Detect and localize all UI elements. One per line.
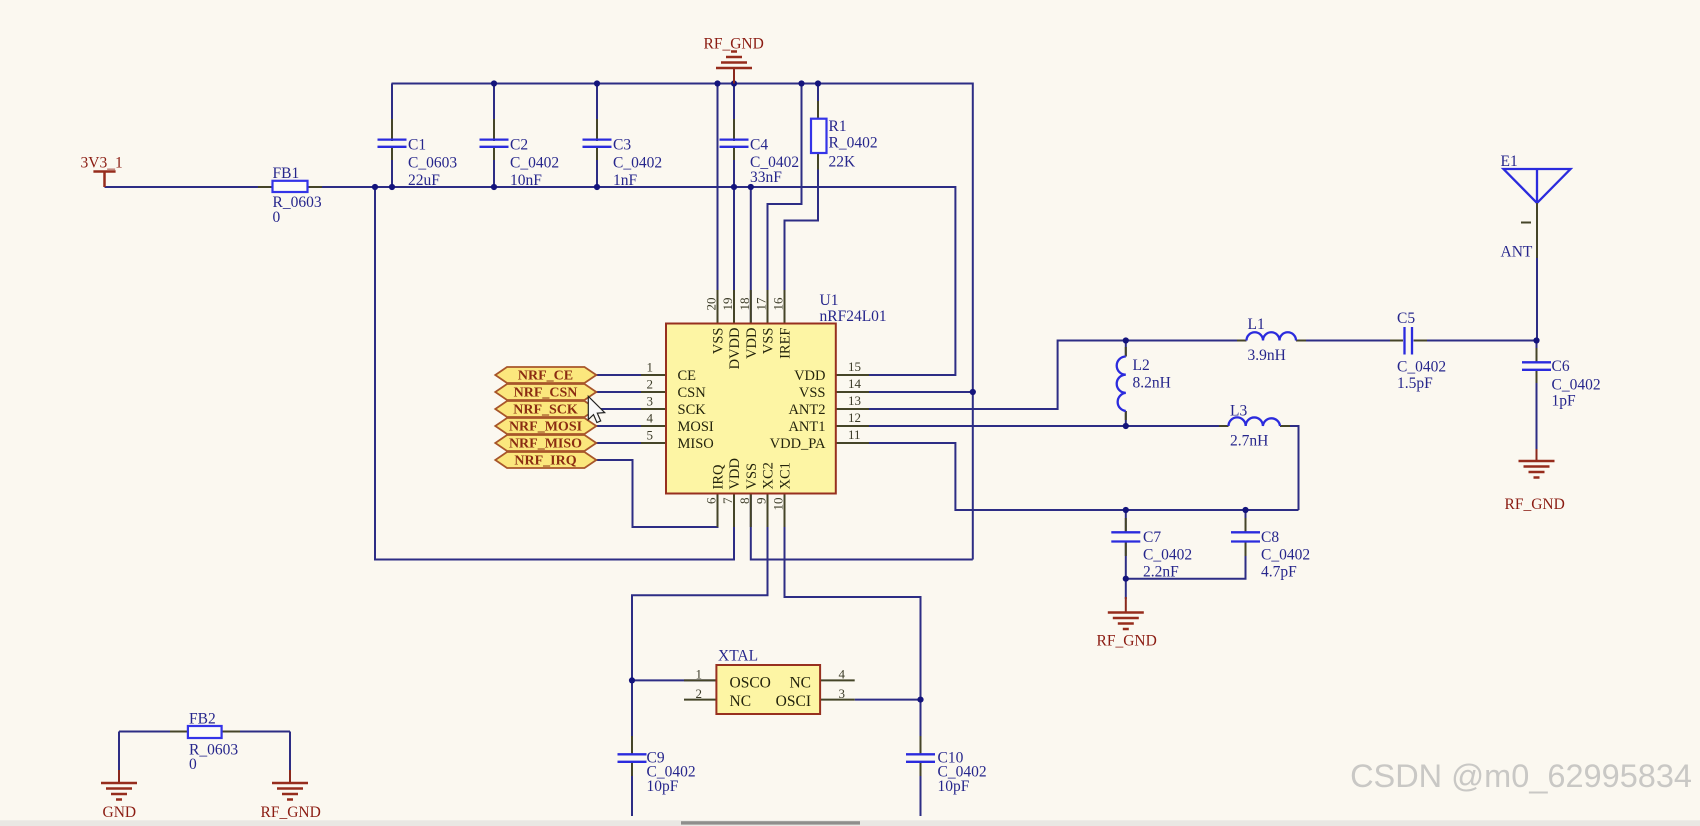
ferrite bead FB1 (258, 165, 322, 226)
svg-text:3: 3 (839, 686, 846, 701)
svg-text:XC1: XC1 (778, 462, 794, 489)
net label NRF_CE (495, 367, 596, 384)
svg-text:NRF_SCK: NRF_SCK (513, 403, 578, 418)
junction dots top bus (491, 80, 821, 86)
svg-text:CSDN @m0_62995834: CSDN @m0_62995834 (1350, 758, 1692, 794)
wire FB2 left to GND (119, 732, 188, 773)
capacitor C10 (906, 736, 987, 795)
capacitor C6 (1522, 348, 1601, 410)
wire L2 leads (1125, 341, 1127, 427)
wire 3V3 bus and pin15 VDD (105, 187, 956, 375)
wire pin17 VSS jog (768, 84, 802, 324)
wire C8 column and bottom link (1126, 510, 1246, 579)
junction dot XTAL pin3 node (917, 697, 923, 703)
svg-text:2.2nF: 2.2nF (1143, 564, 1179, 581)
svg-text:5: 5 (647, 428, 654, 443)
svg-text:C7: C7 (1143, 529, 1161, 546)
IC right pin names (770, 368, 826, 452)
wire pin20 VSS column (717, 84, 719, 324)
capacitor C9 (618, 736, 696, 795)
svg-text:2: 2 (696, 686, 703, 701)
wire pin9 XC2 to XTAL (632, 494, 768, 681)
ground RF_GND bottom-left (261, 770, 321, 821)
capacitor C7 (1111, 518, 1192, 581)
capacitor C8 (1231, 518, 1310, 581)
svg-text:C_0402: C_0402 (1143, 547, 1192, 564)
IC bottom pin numbers (704, 497, 786, 511)
svg-text:ANT1: ANT1 (788, 419, 825, 435)
watermark CSDN (1350, 758, 1692, 794)
svg-text:VSS: VSS (799, 385, 826, 401)
svg-text:NRF_CE: NRF_CE (518, 369, 573, 384)
ground RF_GND below C7 (1097, 597, 1157, 650)
svg-text:6: 6 (704, 497, 719, 504)
svg-text:10: 10 (771, 498, 786, 511)
svg-text:4.7pF: 4.7pF (1261, 564, 1297, 581)
svg-text:1: 1 (647, 360, 654, 375)
power flag 3V3_1 (81, 155, 123, 188)
svg-text:IREF: IREF (778, 328, 794, 359)
svg-text:C_0402: C_0402 (1397, 359, 1446, 376)
svg-text:OSCI: OSCI (776, 693, 811, 710)
svg-text:3V3_1: 3V3_1 (81, 155, 123, 172)
IC top pin names (711, 328, 794, 370)
net label NRF_SCK (495, 401, 596, 418)
wire NRF_CSN to pin2 (596, 391, 666, 393)
svg-text:C6: C6 (1552, 358, 1570, 375)
svg-text:XC2: XC2 (761, 462, 777, 489)
wire pin18 VDD column (750, 187, 752, 324)
svg-text:GND: GND (103, 804, 137, 821)
svg-text:16: 16 (771, 297, 786, 311)
svg-text:RF_GND: RF_GND (704, 36, 764, 53)
svg-text:3.9nH: 3.9nH (1248, 347, 1286, 364)
svg-text:L2: L2 (1133, 357, 1150, 374)
ferrite bead FB2 (170, 711, 240, 774)
svg-text:1.5pF: 1.5pF (1397, 375, 1433, 392)
wire pin14 VSS (836, 391, 973, 393)
svg-text:20: 20 (704, 298, 719, 311)
svg-text:RF_GND: RF_GND (1505, 496, 1565, 513)
svg-text:2: 2 (647, 377, 654, 392)
svg-text:22K: 22K (829, 154, 857, 171)
svg-text:NC: NC (730, 693, 752, 710)
resistor R1 (811, 101, 878, 171)
svg-text:22uF: 22uF (408, 172, 440, 189)
svg-text:ANT: ANT (1501, 244, 1533, 261)
bottom bar (0, 820, 1700, 826)
svg-text:4: 4 (647, 411, 654, 426)
net label NRF_MISO (495, 435, 596, 452)
svg-text:3: 3 (647, 394, 654, 409)
svg-text:NRF_MISO: NRF_MISO (509, 437, 582, 452)
svg-text:ANT2: ANT2 (788, 402, 825, 418)
IC right pin numbers (848, 359, 862, 442)
junction dots 3V3 bus (372, 184, 754, 190)
wire R1/IREF net (785, 84, 819, 324)
wire C1 column (391, 84, 393, 188)
wire NRF_MOSI to pin4 (596, 425, 666, 427)
svg-text:VDD: VDD (727, 458, 743, 489)
svg-text:U1: U1 (820, 292, 839, 309)
net label NRF_MOSI (495, 418, 596, 435)
wire pin8 VSS to vertical (751, 494, 973, 560)
svg-text:MOSI: MOSI (678, 419, 714, 435)
svg-text:C_0402: C_0402 (1552, 377, 1601, 394)
svg-text:L3: L3 (1230, 403, 1247, 420)
antenna E1 (1501, 153, 1571, 261)
svg-text:10pF: 10pF (938, 778, 970, 795)
svg-text:MISO: MISO (678, 436, 714, 452)
svg-text:33nF: 33nF (750, 169, 782, 186)
junction dot XTAL pin1 node (629, 677, 635, 683)
svg-text:RF_GND: RF_GND (1097, 633, 1157, 650)
junction dot C7 bottom (1123, 576, 1129, 582)
net label NRF_IRQ (495, 452, 596, 469)
svg-text:OSCO: OSCO (730, 675, 771, 692)
svg-text:NC: NC (789, 675, 811, 692)
IC U1 nRF24L01 body (641, 290, 887, 527)
wire C4/pin19 DVDD column (733, 84, 735, 324)
IC bottom pin names (711, 458, 794, 489)
svg-text:IRQ: IRQ (711, 464, 727, 490)
svg-text:2.7nH: 2.7nH (1230, 433, 1268, 450)
IC top pin numbers (704, 297, 786, 311)
wire antenna stem (1536, 203, 1538, 341)
wire NRF_SCK to pin3 (596, 408, 666, 410)
svg-text:10pF: 10pF (647, 778, 679, 795)
svg-text:19: 19 (720, 298, 735, 311)
inductor L1 (1237, 316, 1306, 364)
svg-text:DVDD: DVDD (727, 328, 743, 370)
svg-text:C3: C3 (613, 137, 631, 154)
svg-text:CSN: CSN (678, 385, 707, 401)
net label NRF_CSN (495, 384, 596, 401)
svg-text:8: 8 (737, 498, 752, 505)
svg-text:NRF_IRQ: NRF_IRQ (514, 454, 576, 469)
svg-text:L1: L1 (1248, 316, 1265, 333)
mouse cursor (588, 396, 604, 422)
svg-text:C_0402: C_0402 (613, 155, 662, 172)
svg-text:0: 0 (189, 756, 197, 773)
wire C2 column (493, 84, 495, 188)
svg-text:SCK: SCK (678, 402, 707, 418)
svg-text:VSS: VSS (761, 328, 777, 355)
svg-text:C_0603: C_0603 (408, 155, 457, 172)
svg-text:NRF_CSN: NRF_CSN (514, 386, 578, 401)
svg-text:1: 1 (696, 667, 703, 682)
wire pin10 XC1 to XTAL (785, 494, 921, 700)
svg-text:12: 12 (848, 410, 861, 425)
wire NRF_IRQ to pin6 (596, 460, 718, 527)
wire C3 column (596, 84, 598, 188)
junction dot L2/ANT1 node (1123, 423, 1129, 429)
svg-text:VDD: VDD (744, 328, 760, 359)
wire C7 to RF_GND stem (1125, 579, 1127, 599)
capacitor C2 (480, 119, 560, 189)
svg-text:FB2: FB2 (189, 711, 216, 728)
wire NRF_CE to pin1 (596, 374, 666, 376)
svg-text:NRF_MOSI: NRF_MOSI (509, 420, 582, 435)
crystal XTAL (684, 648, 855, 715)
wire FB2 right to RF_GND (222, 732, 290, 773)
svg-text:C8: C8 (1261, 529, 1279, 546)
wire C9 column (631, 680, 633, 816)
wire pin11 VDD_PA net (836, 443, 1299, 510)
svg-text:C4: C4 (750, 137, 768, 154)
svg-text:13: 13 (848, 393, 861, 408)
capacitor C4 (720, 119, 800, 186)
svg-text:VDD: VDD (794, 368, 825, 384)
wire pin13 ANT2 to L1 (836, 341, 1537, 410)
svg-text:nRF24L01: nRF24L01 (820, 308, 887, 325)
inductor L3 (1219, 403, 1290, 450)
svg-text:14: 14 (848, 376, 862, 391)
svg-text:R1: R1 (829, 118, 847, 135)
svg-text:7: 7 (720, 497, 735, 504)
IC left pin names (678, 368, 714, 452)
svg-text:CE: CE (678, 368, 697, 384)
svg-text:1pF: 1pF (1552, 393, 1577, 410)
capacitor C5 (1390, 310, 1446, 392)
wire pin12 ANT1 through L3 (836, 426, 1299, 510)
svg-text:17: 17 (754, 297, 769, 311)
wire RF_GND top bus (392, 84, 973, 560)
svg-text:C_0402: C_0402 (1261, 547, 1310, 564)
svg-text:E1: E1 (1501, 153, 1518, 170)
junction dots VDD_PA line (1123, 507, 1249, 513)
junction dot pin14/VSS vertical (970, 389, 976, 395)
svg-text:8.2nH: 8.2nH (1133, 375, 1171, 392)
svg-text:15: 15 (848, 359, 861, 374)
capacitor C3 (583, 119, 663, 189)
wire C7 column (1125, 510, 1127, 579)
svg-text:C2: C2 (510, 137, 528, 154)
wire C10 column (920, 700, 922, 816)
junction dot L1/L2 node (1123, 337, 1129, 343)
ground RF_GND top (inverted) (704, 36, 764, 84)
svg-text:R_0402: R_0402 (829, 135, 878, 152)
wire C6 column (1536, 341, 1538, 457)
svg-text:C1: C1 (408, 137, 426, 154)
wire 3V3 feed to pin7 VDD (375, 187, 734, 560)
capacitor C1 (378, 119, 458, 189)
IC left pin numbers (647, 360, 654, 443)
inductor L2 (1117, 347, 1171, 420)
wire NRF_MISO to pin5 (596, 442, 666, 444)
svg-text:1nF: 1nF (613, 172, 638, 189)
svg-text:11: 11 (848, 427, 861, 442)
svg-text:4: 4 (839, 667, 846, 682)
svg-text:C5: C5 (1397, 310, 1415, 327)
junction dot antenna node (1533, 337, 1539, 343)
svg-text:RF_GND: RF_GND (261, 804, 321, 821)
svg-text:FB1: FB1 (273, 165, 300, 182)
svg-text:10nF: 10nF (510, 172, 542, 189)
svg-text:VDD_PA: VDD_PA (770, 436, 826, 452)
svg-text:VSS: VSS (744, 463, 760, 490)
ground GND bottom-left (101, 770, 137, 821)
svg-text:18: 18 (737, 298, 752, 311)
ground RF_GND below C6 (1505, 449, 1565, 513)
svg-text:C_0402: C_0402 (510, 155, 559, 172)
svg-text:XTAL: XTAL (718, 648, 758, 665)
svg-text:0: 0 (273, 209, 281, 226)
svg-text:VSS: VSS (711, 328, 727, 355)
svg-text:9: 9 (754, 498, 769, 505)
